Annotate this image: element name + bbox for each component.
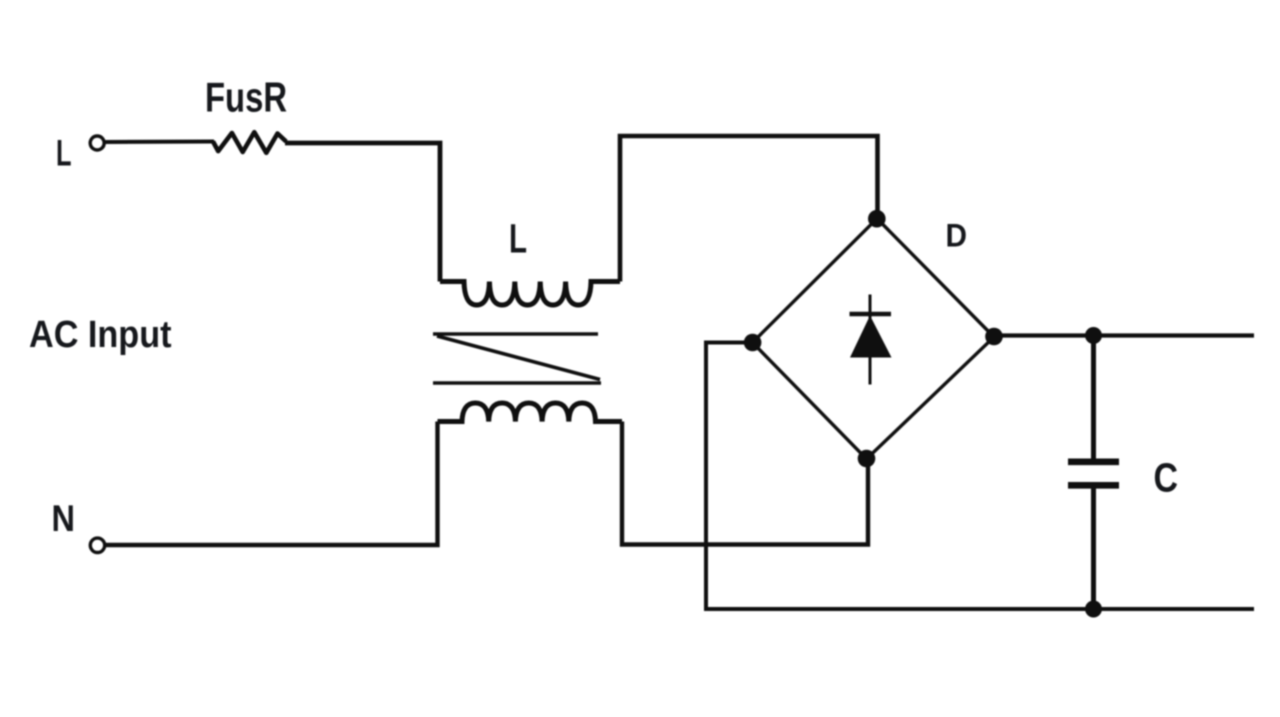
- junction dot bridge right vertex: [985, 328, 1003, 346]
- junction dot capacitor top: [1085, 327, 1102, 344]
- resistor FusR: [213, 132, 286, 153]
- svg-text:D: D: [946, 218, 968, 254]
- wire resistor FusR to choke L top-left, with corner down: [285, 143, 440, 282]
- svg-text:L: L: [56, 133, 72, 174]
- bridge rectifier D diamond: [753, 219, 995, 460]
- wire L terminal to resistor FusR: [106, 140, 215, 145]
- junction dot bridge bottom vertex: [858, 450, 876, 468]
- wire bridge left vertex down to negative output rail: [706, 343, 1254, 610]
- svg-text:AC Input: AC Input: [29, 314, 172, 356]
- junction dot bridge top vertex: [868, 210, 886, 228]
- choke core diagonal: [437, 336, 600, 380]
- inductor L bottom winding (common-mode choke secondary): [438, 403, 623, 422]
- terminal L (line input): [90, 136, 104, 150]
- diode inside bridge: [850, 295, 892, 385]
- svg-text:C: C: [1154, 455, 1179, 501]
- choke core line bottom: [433, 381, 601, 385]
- svg-text:N: N: [52, 497, 76, 539]
- junction dot bridge left vertex: [744, 334, 762, 352]
- choke core line top: [433, 332, 598, 336]
- wire choke top-right up and over to bridge top vertex: [620, 136, 878, 282]
- wire N terminal to choke bottom-left: [106, 422, 438, 546]
- svg-text:L: L: [509, 216, 527, 262]
- capacitor C: [1068, 336, 1119, 610]
- terminal N (neutral input): [90, 538, 104, 552]
- junction dot capacitor bottom: [1085, 601, 1102, 618]
- inductor L top winding (common-mode choke primary): [440, 282, 620, 306]
- wire choke bottom-right to bridge bottom vertex: [622, 422, 868, 545]
- svg-text:FusR: FusR: [205, 74, 287, 121]
- wire bridge right vertex to positive output rail: [994, 333, 1254, 337]
